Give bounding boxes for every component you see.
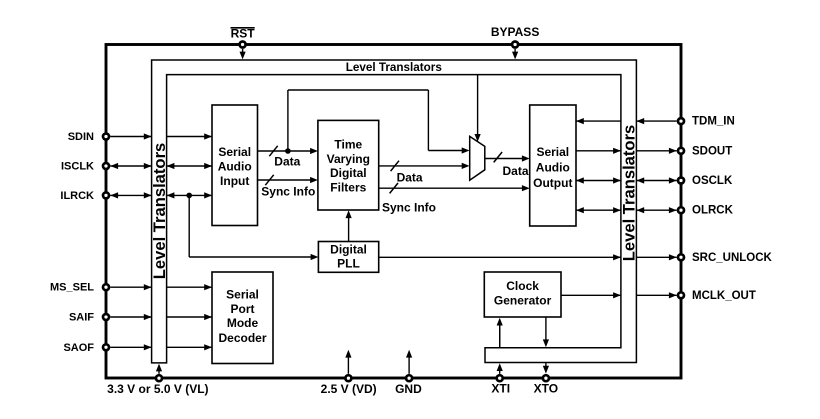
svg-text:Time: Time <box>334 138 362 152</box>
svg-text:Serial: Serial <box>218 145 251 159</box>
svg-text:SDIN: SDIN <box>68 131 94 143</box>
svg-text:Digital: Digital <box>330 166 367 180</box>
svg-text:Audio: Audio <box>218 159 252 173</box>
svg-text:Decoder: Decoder <box>218 331 266 345</box>
svg-text:Input: Input <box>220 174 249 188</box>
svg-text:MS_SEL: MS_SEL <box>50 282 94 294</box>
svg-text:XTI: XTI <box>491 382 510 396</box>
svg-text:Level Translators: Level Translators <box>346 61 443 74</box>
svg-text:2.5 V (VD): 2.5 V (VD) <box>321 382 377 396</box>
svg-text:Sync Info: Sync Info <box>261 185 315 199</box>
svg-text:Sync Info: Sync Info <box>382 201 436 215</box>
svg-text:Generator: Generator <box>494 294 552 308</box>
svg-text:3.3 V or 5.0 V (VL): 3.3 V or 5.0 V (VL) <box>107 382 208 396</box>
svg-text:OLRCK: OLRCK <box>692 205 734 217</box>
svg-text:Data: Data <box>397 171 423 185</box>
svg-text:Audio: Audio <box>536 161 570 175</box>
svg-text:Output: Output <box>533 176 572 190</box>
svg-text:OSCLK: OSCLK <box>692 175 733 187</box>
svg-text:SDOUT: SDOUT <box>692 145 732 157</box>
svg-text:SAIF: SAIF <box>69 312 94 324</box>
svg-text:ISCLK: ISCLK <box>61 161 94 173</box>
svg-text:Digital: Digital <box>330 242 367 256</box>
svg-text:TDM_IN: TDM_IN <box>692 116 735 128</box>
svg-text:SRC_UNLOCK: SRC_UNLOCK <box>692 252 773 264</box>
svg-text:Clock: Clock <box>506 279 539 293</box>
svg-text:Serial: Serial <box>226 287 259 301</box>
svg-text:SAOF: SAOF <box>63 342 94 354</box>
svg-text:PLL: PLL <box>337 256 360 270</box>
svg-text:Data: Data <box>274 154 300 168</box>
svg-text:Varying: Varying <box>327 152 370 166</box>
svg-text:GND: GND <box>395 382 422 396</box>
svg-text:Serial: Serial <box>536 145 569 159</box>
svg-text:BYPASS: BYPASS <box>491 25 539 39</box>
svg-text:Level Translators: Level Translators <box>620 125 639 262</box>
svg-text:ILRCK: ILRCK <box>60 190 94 202</box>
svg-text:Port: Port <box>231 302 255 316</box>
svg-text:XTO: XTO <box>534 382 558 396</box>
svg-text:Level Translators: Level Translators <box>150 143 169 280</box>
svg-text:MCLK_OUT: MCLK_OUT <box>692 290 756 302</box>
svg-text:Mode: Mode <box>227 316 259 330</box>
svg-text:Filters: Filters <box>330 180 366 194</box>
svg-text:Data: Data <box>502 164 528 178</box>
